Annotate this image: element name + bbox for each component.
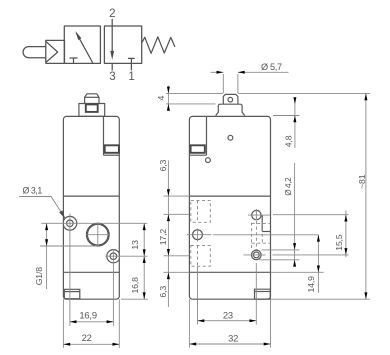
svg-text:1: 1 (128, 71, 134, 83)
svg-text:4: 4 (156, 96, 166, 101)
svg-text:32: 32 (228, 333, 238, 344)
svg-text:23: 23 (223, 309, 233, 320)
svg-text:15,5: 15,5 (334, 234, 344, 251)
svg-text:16,8: 16,8 (130, 277, 140, 294)
svg-text:3: 3 (109, 71, 115, 83)
svg-text:Ø 3,1: Ø 3,1 (23, 186, 43, 196)
svg-text:G1/8: G1/8 (34, 267, 44, 286)
svg-text:13: 13 (130, 240, 140, 250)
svg-text:Ø 4,2: Ø 4,2 (284, 177, 293, 196)
svg-text:6,3: 6,3 (158, 286, 168, 298)
svg-text:6,3: 6,3 (158, 159, 168, 171)
svg-text:22: 22 (82, 332, 92, 343)
svg-text:~81: ~81 (357, 174, 367, 189)
svg-text:16,9: 16,9 (79, 309, 96, 320)
svg-text:4,8: 4,8 (284, 135, 294, 147)
svg-text:14,9: 14,9 (306, 276, 316, 293)
svg-text:Ø 5,7: Ø 5,7 (261, 62, 282, 72)
svg-text:17,2: 17,2 (158, 229, 168, 246)
svg-text:2: 2 (109, 8, 115, 20)
